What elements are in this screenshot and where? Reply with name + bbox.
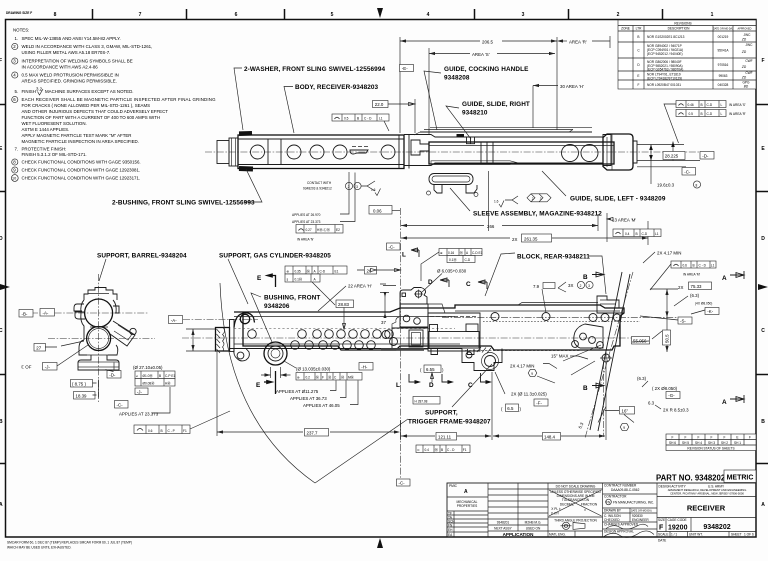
svg-text:ENGINEER: ENGINEER <box>632 518 649 522</box>
svg-text:-H-: -H- <box>361 365 368 370</box>
svg-text:1.: 1. <box>15 36 19 41</box>
svg-text:THIRD ANGLE PROJECTION: THIRD ANGLE PROJECTION <box>554 519 597 523</box>
svg-text:F: F <box>0 58 2 64</box>
svg-text:C-D: C-D <box>707 103 713 107</box>
svg-text:9348208: 9348208 <box>444 75 470 82</box>
svg-text:CONTRACT NUMBER: CONTRACT NUMBER <box>604 484 637 488</box>
svg-text:A: A <box>464 489 468 495</box>
svg-text:SUPPORT,: SUPPORT, <box>425 410 458 417</box>
svg-text:-C-: -C- <box>117 403 124 408</box>
svg-text:A: A <box>761 502 765 508</box>
svg-text:F: F <box>659 525 664 532</box>
svg-text:GUIDE, SLIDE, LEFT - 9348209: GUIDE, SLIDE, LEFT - 9348209 <box>570 196 666 203</box>
svg-text:15° MAX: 15° MAX <box>551 354 568 359</box>
svg-text:IN AREA 'N': IN AREA 'N' <box>297 238 314 242</box>
svg-text:B: B <box>761 419 765 425</box>
svg-text:MAGNETIC PARTICLE INSPECTION I: MAGNETIC PARTICLE INSPECTION IN AREA SPE… <box>22 139 139 144</box>
svg-text:(6.3): (6.3) <box>690 293 700 298</box>
svg-text:APPLIES AT Ø11.275: APPLIES AT Ø11.275 <box>276 389 319 394</box>
svg-text:FINISH 5.3.1.2 OF MIL-STD-171.: FINISH 5.3.1.2 OF MIL-STD-171. <box>22 152 87 157</box>
svg-text:206.5: 206.5 <box>482 39 494 44</box>
svg-text:9: 9 <box>531 372 533 376</box>
svg-text:2X 4.17 MIN: 2X 4.17 MIN <box>510 364 534 369</box>
svg-text:E: E <box>637 74 639 78</box>
svg-text:CAGE CODE: CAGE CODE <box>668 518 687 522</box>
svg-text:4: 4 <box>427 12 430 18</box>
svg-text:28.225: 28.225 <box>665 154 679 159</box>
svg-text:CONTACT WITH: CONTACT WITH <box>307 181 332 185</box>
svg-text:ZD: ZD <box>741 65 747 69</box>
svg-text:SUPPORT, BARREL-9348204: SUPPORT, BARREL-9348204 <box>97 253 187 260</box>
svg-text:IN ACCORDANCE WITH AWS A2.4-86: IN ACCORDANCE WITH AWS A2.4-86 <box>22 65 99 70</box>
svg-text:B: B <box>583 385 588 392</box>
svg-text:0.1Ⓜ: 0.1Ⓜ <box>295 276 303 281</box>
svg-text:⌀: ⌀ <box>136 374 138 378</box>
svg-text:F: F <box>724 436 726 440</box>
svg-text:DO NOT SCALE DRAWING: DO NOT SCALE DRAWING <box>556 485 596 489</box>
svg-text:M2HB M.G.: M2HB M.G. <box>525 521 542 525</box>
svg-text:E: E <box>256 382 261 389</box>
svg-text:SH 6: SH 6 <box>669 441 676 445</box>
svg-text:-D-: -D- <box>109 373 116 378</box>
svg-text:-F-: -F- <box>536 401 542 406</box>
svg-text:AND OTHER INJURIOUS DEFECTS TH: AND OTHER INJURIOUS DEFECTS THAT COULD A… <box>22 109 169 114</box>
svg-text:DESCRIPTION: DESCRIPTION <box>668 27 690 31</box>
svg-text:F: F <box>672 436 674 440</box>
svg-text:19.6±0.3: 19.6±0.3 <box>657 183 675 188</box>
svg-text:C - D: C - D <box>699 264 707 268</box>
svg-text:37: 37 <box>381 320 386 325</box>
svg-text:H 287.08: H 287.08 <box>415 400 428 404</box>
svg-text:16°: 16° <box>622 409 629 414</box>
svg-text:-J-: -J- <box>137 389 143 394</box>
svg-text:0.27: 0.27 <box>306 228 312 232</box>
svg-text:CHECK FUNCTIONAL CONDITION WIT: CHECK FUNCTIONAL CONDITION WITH GAGE 129… <box>22 168 141 173</box>
svg-text:(ECP LT94182/9710129): (ECP LT94182/9710129) <box>647 76 682 80</box>
svg-text:NOR G1S2002E1 8C1213: NOR G1S2002E1 8C1213 <box>647 35 685 39</box>
svg-text:-G-: -G- <box>668 393 675 398</box>
svg-text:C - D: C - D <box>364 117 372 121</box>
svg-text:SPEC MIL-W-13855 AND ANSI Y14.: SPEC MIL-W-13855 AND ANSI Y14.5M-82 APPL… <box>22 36 121 41</box>
svg-text:-B-: -B- <box>22 312 28 317</box>
svg-text:MATL ENG.: MATL ENG. <box>549 533 566 537</box>
svg-text:C: C <box>761 328 765 334</box>
svg-text:040328: 040328 <box>718 83 729 87</box>
svg-text:9348210: 9348210 <box>462 110 488 117</box>
svg-text:SCALE: SCALE <box>658 532 668 536</box>
svg-text:A: A <box>722 275 727 282</box>
svg-text:EH: EH <box>448 528 453 532</box>
svg-text:(6.3): (6.3) <box>637 376 647 381</box>
svg-text:C: C <box>466 281 471 288</box>
svg-text:1 / 1: 1 / 1 <box>671 532 677 536</box>
svg-text:3X: 3X <box>568 283 573 288</box>
svg-text:261.35: 261.35 <box>524 236 538 241</box>
svg-text:APPLICATION: APPLICATION <box>503 532 534 537</box>
svg-text:X.X/Y: X.X/Y <box>551 512 560 516</box>
svg-text:DATE: DATE <box>658 539 666 543</box>
svg-text:CHECK FUNCTIONAL CONDITIONS WI: CHECK FUNCTIONAL CONDITIONS WITH GAGE 93… <box>22 160 141 165</box>
svg-text:0.35: 0.35 <box>295 269 301 273</box>
svg-text:E: E <box>257 275 262 282</box>
svg-text:APPLIES AT 23.373: APPLIES AT 23.373 <box>292 220 321 224</box>
svg-text:0.6: 0.6 <box>683 264 688 268</box>
svg-text:RECEIVER: RECEIVER <box>687 504 726 513</box>
svg-text:30 AREA 'H': 30 AREA 'H' <box>560 84 584 89</box>
svg-text:(4X Ø8.050): (4X Ø8.050) <box>695 302 712 306</box>
svg-text:⊕: ⊕ <box>297 376 300 380</box>
svg-text:26: 26 <box>367 269 372 274</box>
svg-text:C-D: C-D <box>320 269 326 273</box>
svg-text:E2: E2 <box>336 228 340 232</box>
svg-text:L: L <box>402 252 406 259</box>
svg-text:-C-: -C- <box>389 245 396 250</box>
svg-text:BD: BD <box>744 85 749 89</box>
svg-text:SH 4: SH 4 <box>695 441 702 445</box>
svg-text:0.4: 0.4 <box>425 448 430 452</box>
svg-text:B: B <box>693 264 695 268</box>
svg-text:WELD IN ACCORDANCE WITH CLASS: WELD IN ACCORDANCE WITH CLASS 3, GMAW, M… <box>22 44 153 49</box>
svg-text:B: B <box>636 232 638 236</box>
svg-text:ZD: ZD <box>741 38 747 42</box>
svg-text:2: 2 <box>532 197 534 201</box>
svg-text:SH 5: SH 5 <box>682 441 689 445</box>
svg-text:CENTER, PICATINNY ARSENAL, NEW: CENTER, PICATINNY ARSENAL, NEW JERSEY 07… <box>670 492 744 496</box>
svg-text:CHECKED: CHECKED <box>604 518 620 522</box>
svg-text:DATE (YR-MO-DA): DATE (YR-MO-DA) <box>631 510 652 513</box>
svg-text:D: D <box>761 236 765 242</box>
svg-text:B: B <box>161 429 163 433</box>
svg-text:SH 1: SH 1 <box>734 441 741 445</box>
svg-text:CHECK FUNCTIONAL CONDITION WIT: CHECK FUNCTIONAL CONDITION WITH GAGE 129… <box>22 176 141 181</box>
svg-text:CWF: CWF <box>745 71 752 75</box>
svg-text:DESIGN ACTIVITY: DESIGN ACTIVITY <box>659 485 687 489</box>
svg-text:-A-: -A- <box>171 318 177 323</box>
svg-text:6.5: 6.5 <box>507 406 514 411</box>
svg-text:2: 2 <box>580 284 582 288</box>
svg-text:28.83: 28.83 <box>338 302 350 307</box>
svg-text:0.16: 0.16 <box>448 251 454 255</box>
svg-text:NOTES:: NOTES: <box>13 28 29 33</box>
svg-text:-J-: -J- <box>45 365 51 370</box>
svg-text:148.4: 148.4 <box>544 435 556 440</box>
svg-text:5: 5 <box>331 12 334 18</box>
svg-text:IN AREA 'R': IN AREA 'R' <box>729 112 746 116</box>
svg-text:L: L <box>721 112 723 116</box>
svg-text:WET FLUORESENT SOLUTION.: WET FLUORESENT SOLUTION. <box>22 121 87 126</box>
svg-text:WHICH MAY BE USED UNTIL EXHAUS: WHICH MAY BE USED UNTIL EXHAUSTED. <box>7 546 72 550</box>
svg-text:19200: 19200 <box>668 525 688 532</box>
svg-text:DRAWING SIZE F: DRAWING SIZE F <box>6 11 32 15</box>
svg-text:A: A <box>0 502 3 508</box>
svg-text:JWC: JWC <box>746 43 754 47</box>
svg-text:F: F <box>749 436 751 440</box>
svg-text:FINISH: FINISH <box>22 89 36 94</box>
svg-text:1 OF 6: 1 OF 6 <box>744 532 754 536</box>
svg-text:APPLIES AT 36.73: APPLIES AT 36.73 <box>290 396 327 401</box>
svg-text:75.33: 75.33 <box>691 284 703 289</box>
svg-text:121.11: 121.11 <box>438 435 452 440</box>
svg-text:F: F <box>698 436 700 440</box>
svg-text:-E-: -E- <box>402 66 408 71</box>
svg-text:ARMAMENT RESEARCH, DEVELOPMENT: ARMAMENT RESEARCH, DEVELOPMENT AND ENGIN… <box>668 488 747 492</box>
svg-text:PROPERTIES: PROPERTIES <box>457 504 478 508</box>
svg-text:-S-: -S- <box>680 319 686 324</box>
svg-text:50.5: 50.5 <box>665 334 670 343</box>
svg-text:(ECP 9452012 / 94040E): (ECP 9452012 / 94040E) <box>647 52 683 56</box>
svg-text:FOR CRACKS ( NONE ALLOWED PER: FOR CRACKS ( NONE ALLOWED PER MIL-STD-12… <box>22 103 151 108</box>
svg-text:C-D: C-D <box>465 258 471 262</box>
svg-text:7: 7 <box>139 12 142 18</box>
svg-text:IN AREA 'M': IN AREA 'M' <box>683 273 701 277</box>
svg-text:F1: F1 <box>183 429 187 433</box>
svg-text:9348202: 9348202 <box>703 524 730 531</box>
svg-text:-K-: -K- <box>707 309 713 314</box>
svg-text:3: 3 <box>588 284 590 288</box>
svg-text:APPLY MAGNETIC PARTICLE TEST M: APPLY MAGNETIC PARTICLE TEST MARK "M" AF… <box>22 133 132 138</box>
svg-text:L1: L1 <box>379 117 383 121</box>
svg-text:9348206: 9348206 <box>264 303 290 310</box>
svg-text:B: B <box>159 374 161 378</box>
svg-text:FN MANUFACTURING, INC.: FN MANUFACTURING, INC. <box>613 501 654 505</box>
svg-text:AREA 'S': AREA 'S' <box>472 52 490 57</box>
svg-text:5.: 5. <box>15 89 19 94</box>
svg-text:APPLIES AT 23.373: APPLIES AT 23.373 <box>119 412 159 417</box>
svg-text:HⓂ: HⓂ <box>165 381 171 386</box>
svg-text:L: L <box>721 103 723 107</box>
svg-text:GUIDE, SLIDE, RIGHT: GUIDE, SLIDE, RIGHT <box>462 101 530 108</box>
svg-text:ASTM E 1444 APPLIES.: ASTM E 1444 APPLIES. <box>22 127 70 132</box>
svg-text:001219: 001219 <box>718 35 729 39</box>
svg-text:⊙: ⊙ <box>417 448 420 452</box>
svg-text:95041A: 95041A <box>718 49 730 53</box>
svg-text:6.55: 6.55 <box>426 367 435 372</box>
svg-text:970516: 970516 <box>718 63 729 67</box>
svg-text:L1: L1 <box>711 264 715 268</box>
svg-text:0.4: 0.4 <box>625 232 630 236</box>
svg-text:22.0: 22.0 <box>375 102 384 107</box>
svg-text:BLOCK, REAR-9348211: BLOCK, REAR-9348211 <box>517 254 590 261</box>
svg-text:C: C <box>468 382 473 389</box>
svg-text:C - D: C - D <box>447 448 455 452</box>
svg-text:EACH RECEIVER SHALL BE MAGNETI: EACH RECEIVER SHALL BE MAGNETIC PARTICLE… <box>22 97 217 102</box>
svg-text:ℂ OF: ℂ OF <box>21 365 32 370</box>
svg-text:LTR: LTR <box>636 27 642 31</box>
svg-text:GUIDE, COCKING HANDLE: GUIDE, COCKING HANDLE <box>444 66 529 73</box>
svg-text:REVISION STATUS OF SHEETS: REVISION STATUS OF SHEETS <box>687 447 734 451</box>
svg-text:1: 1 <box>711 12 714 18</box>
svg-text:APPLIES AT 26.970: APPLIES AT 26.970 <box>292 213 321 217</box>
svg-text:FN: FN <box>606 501 611 505</box>
svg-text:USING FILLER METAL AWS A5.18 E: USING FILLER METAL AWS A5.18 ER70S-7. <box>22 50 111 55</box>
svg-text:9348201: 9348201 <box>497 521 510 525</box>
svg-text:PROTECTIVE FINISH:: PROTECTIVE FINISH: <box>22 147 67 152</box>
svg-text:2X (Ø 11.3±0.025): 2X (Ø 11.3±0.025) <box>511 392 547 397</box>
svg-text:18.39: 18.39 <box>76 394 88 399</box>
svg-text:SIZE: SIZE <box>658 518 665 522</box>
svg-text:HⓂ-ⓁⓂ: HⓂ-ⓁⓂ <box>317 227 331 232</box>
svg-text:IN AREA 'S': IN AREA 'S' <box>729 103 746 107</box>
svg-text:B: B <box>583 274 588 281</box>
svg-text:2-WASHER, FRONT SLING SWIVEL-1: 2-WASHER, FRONT SLING SWIVEL-12556994 <box>244 66 385 73</box>
svg-text:L1: L1 <box>655 232 659 236</box>
svg-text:UNIT WT.: UNIT WT. <box>689 532 703 536</box>
svg-text:DESIGN APPROVAL: DESIGN APPROVAL <box>604 530 634 534</box>
svg-text:CHARGES APPROVED: CHARGES APPROVED <box>604 523 639 527</box>
svg-text:B: B <box>357 117 359 121</box>
svg-text:0.46: 0.46 <box>688 103 694 107</box>
svg-text:NEXT ASSY: NEXT ASSY <box>494 527 513 531</box>
svg-text:2X 4.17 MIN: 2X 4.17 MIN <box>657 251 681 256</box>
svg-text:1.6: 1.6 <box>494 200 499 204</box>
svg-text:BUSHING, FRONT: BUSHING, FRONT <box>264 295 320 302</box>
svg-text:DATE (YR-MO-DA): DATE (YR-MO-DA) <box>713 27 733 30</box>
svg-text:CONTRACTOR: CONTRACTOR <box>604 495 627 499</box>
svg-text:SH 3: SH 3 <box>708 441 715 445</box>
svg-text:7.9: 7.9 <box>533 284 540 289</box>
svg-text:C: C <box>0 328 3 334</box>
svg-text:ZONE: ZONE <box>621 27 630 31</box>
svg-text:-A-: -A- <box>43 311 49 316</box>
svg-text:E1: E1 <box>335 269 339 273</box>
svg-text:SH 2: SH 2 <box>721 441 728 445</box>
svg-text:F: F <box>322 376 324 380</box>
svg-text:MⓂ: MⓂ <box>348 375 355 380</box>
svg-text:REVISIONS: REVISIONS <box>674 21 691 25</box>
svg-text:2X R 8.5±0.3: 2X R 8.5±0.3 <box>663 408 689 413</box>
svg-text:FUNCTION OF PART WITH A CURREN: FUNCTION OF PART WITH A CURRENT OF 400 T… <box>22 115 161 120</box>
svg-text:6: 6 <box>235 12 238 18</box>
svg-text:B: B <box>441 448 443 452</box>
svg-text:Ø 6.035+0.030: Ø 6.035+0.030 <box>437 269 467 274</box>
svg-text:22 AREA 'H': 22 AREA 'H' <box>348 284 372 289</box>
svg-text:E: E <box>736 436 738 440</box>
svg-text:13 AREA 'M': 13 AREA 'M' <box>612 218 636 223</box>
svg-text:0.5: 0.5 <box>689 112 694 116</box>
svg-text:B: B <box>637 35 639 39</box>
svg-text:X PL ±: X PL ± <box>551 507 561 511</box>
svg-text:FN: FN <box>448 523 453 527</box>
svg-text:B: B <box>701 112 703 116</box>
svg-text:2-BUSHING, FRONT SLING SWIVEL-: 2-BUSHING, FRONT SLING SWIVEL-12556993 <box>112 200 255 207</box>
svg-text:TRIGGER FRAME-9348207: TRIGGER FRAME-9348207 <box>408 419 491 426</box>
svg-text:F: F <box>685 436 687 440</box>
svg-text:INTERPRETATION OF WELDING SYMB: INTERPRETATION OF WELDING SYMBOLS SHALL … <box>22 59 133 64</box>
svg-text:METRIC: METRIC <box>727 475 754 482</box>
svg-text:0.5 MAX WELD PROTRUSION PERMIS: 0.5 MAX WELD PROTRUSION PERMISSIBLE IN <box>22 73 119 78</box>
svg-text:F: F <box>711 436 713 440</box>
svg-text:SMCAR FORM 60, 1 DEC 87 (TEMP): SMCAR FORM 60, 1 DEC 87 (TEMP) REPLACES … <box>7 541 132 545</box>
svg-text:3: 3 <box>356 185 358 189</box>
svg-text:2X: 2X <box>512 237 517 242</box>
svg-text:SUPPORT, GAS CYLINDER-9348205: SUPPORT, GAS CYLINDER-9348205 <box>219 253 331 260</box>
svg-text:( 8.75 ): ( 8.75 ) <box>72 382 86 387</box>
svg-text:237.7: 237.7 <box>307 431 319 436</box>
svg-text:3: 3 <box>522 12 525 18</box>
svg-text:AREA 'R': AREA 'R' <box>569 39 587 44</box>
svg-text:(ECP G054763 / 98070A): (ECP G054763 / 98070A) <box>647 68 683 72</box>
svg-text:CWF: CWF <box>745 59 752 63</box>
svg-text:(Ø 13.035±0.030): (Ø 13.035±0.030) <box>296 367 331 372</box>
svg-text:F: F <box>761 58 764 64</box>
svg-text:SHEET: SHEET <box>731 532 742 536</box>
svg-text:Ø1.0Ⓜ: Ø1.0Ⓜ <box>143 373 154 378</box>
svg-text:0.2: 0.2 <box>306 376 311 380</box>
svg-text:C - P: C - P <box>168 429 175 433</box>
svg-text:ZD: ZD <box>741 76 747 80</box>
svg-text:PMIC: PMIC <box>449 484 458 488</box>
svg-text:APPROVED: APPROVED <box>738 27 752 30</box>
svg-text:APPLIES AT 46.05: APPLIES AT 46.05 <box>303 403 340 408</box>
svg-text:6.3: 6.3 <box>648 401 655 406</box>
svg-text:9: 9 <box>623 426 625 430</box>
svg-text:C-D: C-D <box>642 232 648 236</box>
svg-text:ZD: ZD <box>741 50 747 54</box>
svg-text:F1: F1 <box>463 448 467 452</box>
svg-text:A: A <box>722 399 727 406</box>
svg-text:99063: 99063 <box>719 74 728 78</box>
svg-text:(Ø 27.10±0.05): (Ø 27.10±0.05) <box>133 365 163 370</box>
svg-text:-D-: -D- <box>702 154 709 159</box>
svg-text:-C-: -C- <box>399 481 406 486</box>
svg-text:10: 10 <box>12 177 16 181</box>
svg-text:NOR L0920B47 001031: NOR L0920B47 001031 <box>647 83 681 87</box>
svg-text:2: 2 <box>617 12 620 18</box>
svg-text:BODY, RECEIVER-9348203: BODY, RECEIVER-9348203 <box>295 84 379 91</box>
svg-text:JWC: JWC <box>744 33 752 37</box>
svg-text:FRACTION: FRACTION <box>581 503 598 507</box>
svg-text:DAAA09-88-C-0562: DAAA09-88-C-0562 <box>611 488 640 492</box>
svg-text:⊕: ⊕ <box>287 269 290 273</box>
svg-text:9348203 & 9348212: 9348203 & 9348212 <box>303 187 332 191</box>
svg-text:B: B <box>701 103 703 107</box>
svg-text:0.6: 0.6 <box>148 429 153 433</box>
svg-text:F: F <box>638 83 640 87</box>
svg-text:( 2X Ø8.050): ( 2X Ø8.050) <box>652 386 678 391</box>
svg-text:Ø0.08Ⓜ: Ø0.08Ⓜ <box>143 381 156 386</box>
svg-text:C-D: C-D <box>707 112 713 116</box>
svg-text:0.1Ⓜ: 0.1Ⓜ <box>449 257 457 262</box>
svg-text:0.06: 0.06 <box>373 208 382 213</box>
svg-text:⊕: ⊕ <box>440 251 443 255</box>
svg-text:C-D E1: C-D E1 <box>472 251 483 255</box>
svg-text:0.5: 0.5 <box>344 117 349 121</box>
svg-text:DRAWN BY: DRAWN BY <box>604 509 622 513</box>
svg-text:MACHINE SURFACES EXCEPT AS NOT: MACHINE SURFACES EXCEPT AS NOTED. <box>45 89 133 94</box>
svg-text:AREAS SPECIFIED. GRINDING PERM: AREAS SPECIFIED. GRINDING PERMISSIBLE. <box>22 79 117 84</box>
svg-text:-C-: -C- <box>684 170 691 175</box>
svg-text:SLEEVE ASSEMBLY, MAGAZINE-9348: SLEEVE ASSEMBLY, MAGAZINE-9348212 <box>473 211 602 218</box>
svg-text:USED ON: USED ON <box>526 527 541 531</box>
svg-text:27: 27 <box>36 346 41 351</box>
svg-text:7.: 7. <box>15 147 19 152</box>
svg-text:U.S. ARMY: U.S. ARMY <box>708 485 725 489</box>
svg-text:C-P E1: C-P E1 <box>165 374 175 378</box>
svg-text:8: 8 <box>696 183 698 187</box>
svg-text:PART NO. 9348202: PART NO. 9348202 <box>656 474 726 483</box>
svg-text:B: B <box>0 419 3 425</box>
svg-text:2X: 2X <box>678 285 683 290</box>
svg-text:8: 8 <box>54 12 57 18</box>
svg-text:L: L <box>396 382 400 389</box>
svg-text:D: D <box>429 382 434 389</box>
svg-text:3: 3 <box>540 197 542 201</box>
svg-text:D: D <box>0 236 3 242</box>
svg-text:1.6: 1.6 <box>371 188 376 192</box>
